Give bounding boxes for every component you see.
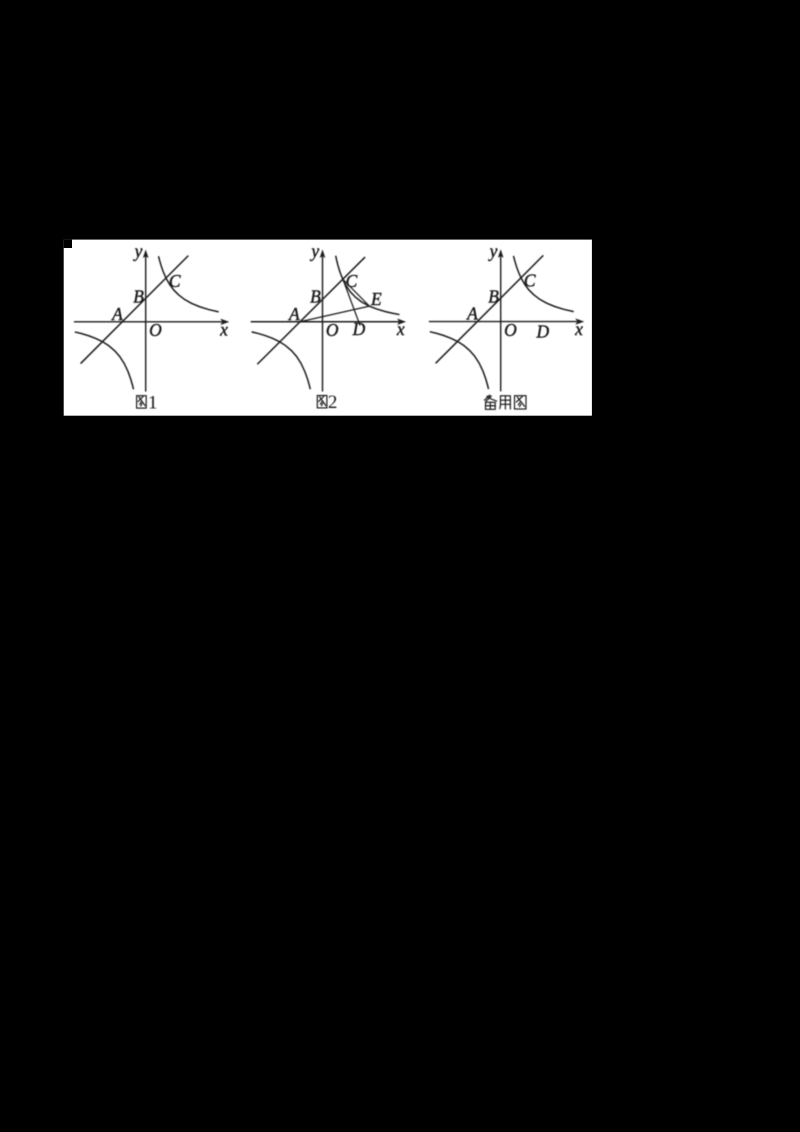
- y-axis line (fig 2): [322, 256, 324, 392]
- hyperbola branch quadrant III (fig 2): [252, 332, 311, 389]
- segment CD (fig 2): [343, 279, 360, 325]
- svg-text:y: y: [133, 241, 143, 261]
- caption glyph tu (fig 1): [137, 396, 147, 408]
- svg-text:C: C: [169, 271, 181, 291]
- svg-text:O: O: [504, 320, 517, 340]
- svg-text:O: O: [326, 320, 339, 340]
- svg-text:A: A: [466, 304, 478, 324]
- x-axis line (spare fig): [429, 321, 577, 323]
- figure 1 group: [74, 241, 229, 392]
- line AC (fig 2): [257, 257, 365, 364]
- hyperbola branch quadrant I (fig 1): [159, 256, 219, 312]
- hyperbola branch quadrant I (spare fig): [514, 256, 574, 312]
- svg-text:D: D: [352, 319, 366, 339]
- figure 3 (spare figure) group: [429, 241, 584, 392]
- svg-text:x: x: [396, 319, 405, 339]
- svg-text:2: 2: [328, 392, 338, 413]
- hyperbola branch quadrant I (fig 2): [336, 256, 400, 315]
- figure 2 group: [251, 241, 406, 392]
- svg-text:D: D: [535, 322, 549, 342]
- x-axis arrowhead (fig 2): [397, 319, 406, 325]
- svg-text:A: A: [288, 304, 300, 324]
- svg-text:x: x: [219, 319, 228, 339]
- svg-text:E: E: [370, 289, 382, 309]
- svg-text:O: O: [149, 320, 162, 340]
- caption glyph tu (fig 2): [317, 396, 327, 408]
- line AC (fig 1): [81, 256, 189, 364]
- svg-text:B: B: [310, 287, 321, 307]
- svg-text:C: C: [524, 271, 536, 291]
- y-axis arrowhead (spare fig): [498, 249, 504, 258]
- svg-text:y: y: [309, 241, 319, 261]
- svg-text:B: B: [133, 287, 144, 307]
- x-axis arrowhead (fig 1): [220, 319, 229, 325]
- caption glyph bei (spare fig): [484, 395, 496, 409]
- segment AE (fig 2): [300, 306, 369, 322]
- x-axis arrowhead (spare fig): [575, 318, 584, 324]
- x-axis line (fig 2): [251, 321, 399, 323]
- black notch at panel top-left corner: [64, 240, 72, 248]
- x-axis line (fig 1): [74, 321, 222, 323]
- chord CE (fig 2): [343, 279, 370, 306]
- y-axis line (spare fig): [500, 256, 502, 392]
- svg-text:x: x: [574, 319, 583, 339]
- white figure panel: [64, 240, 592, 416]
- caption glyph yong (spare fig): [500, 396, 511, 409]
- svg-text:y: y: [488, 241, 498, 261]
- y-axis arrowhead (fig 1): [143, 249, 149, 258]
- hyperbola branch quadrant III (fig 1): [75, 332, 134, 389]
- line AC (spare fig): [436, 255, 544, 363]
- caption glyph tu (spare fig): [515, 396, 527, 409]
- svg-text:A: A: [111, 304, 123, 324]
- hyperbola branch quadrant III (spare fig): [430, 332, 489, 389]
- svg-text:B: B: [488, 286, 499, 306]
- svg-text:1: 1: [148, 392, 158, 413]
- y-axis line (fig 1): [145, 256, 147, 392]
- y-axis arrowhead (fig 2): [320, 249, 326, 258]
